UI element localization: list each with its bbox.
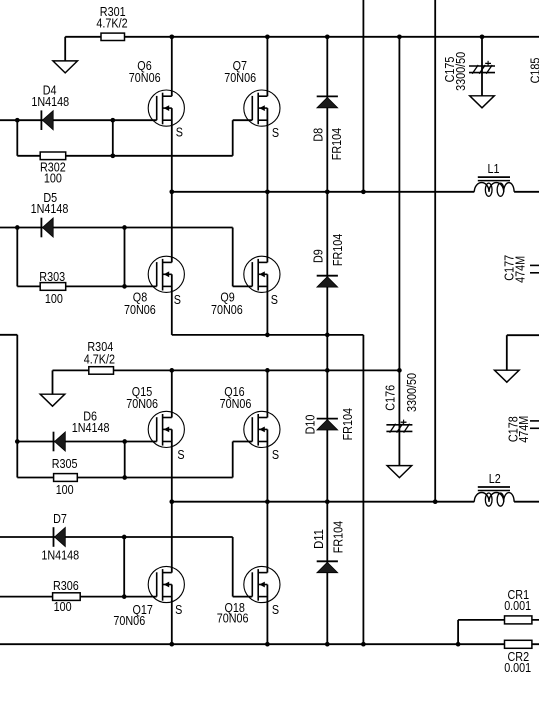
svg-text:1N4148: 1N4148	[31, 94, 69, 109]
svg-text:70N06: 70N06	[129, 70, 161, 85]
transistor Q18 70N06	[217, 566, 280, 625]
wire Q16 gate jog	[233, 442, 253, 478]
wire Q7 source to node A	[266, 108, 268, 192]
ground for R304 rail	[40, 394, 65, 406]
wire R306 to D7 riser	[123, 537, 125, 597]
resistor CR1	[504, 587, 532, 624]
diode D8 FR104	[310, 96, 344, 160]
capacitor C185 (cut off)	[528, 58, 539, 84]
resistor R306	[53, 578, 81, 614]
svg-text:100: 100	[45, 291, 63, 306]
svg-text:70N06: 70N06	[126, 396, 158, 411]
wire bottom rail	[0, 643, 539, 645]
wire Q18 source lead	[266, 585, 268, 645]
wire left bus drop row3	[16, 442, 18, 478]
wire bus vertical lower	[362, 335, 364, 644]
wire bus vertical upper	[362, 0, 364, 192]
ground for C176	[387, 466, 412, 478]
wire Q9 gate jog	[233, 228, 253, 287]
svg-text:0.001: 0.001	[504, 598, 531, 613]
junction dots row2 gate network	[15, 225, 127, 289]
pin S of Q9	[271, 292, 278, 307]
wire Q8 source lead	[171, 274, 173, 335]
wire R303 to D5 riser	[124, 228, 126, 287]
pin S of Q8	[174, 292, 181, 307]
diode D4 1N4148	[31, 83, 69, 130]
wire C177 ground stem	[507, 335, 539, 370]
resistor CR2	[504, 640, 532, 675]
svg-text:FR104: FR104	[330, 234, 345, 266]
wire +V top rail	[65, 36, 539, 38]
wire +V rail 2 (rail3)	[53, 369, 400, 371]
svg-text:S: S	[175, 602, 182, 617]
junction dots bottom rail	[169, 642, 460, 647]
svg-text:R305: R305	[52, 456, 78, 471]
wire R304 ground stem	[52, 370, 54, 394]
svg-text:D10: D10	[303, 415, 318, 435]
svg-text:S: S	[272, 602, 279, 617]
svg-text:1N4148: 1N4148	[41, 547, 79, 562]
wire Q7 gate jog	[233, 120, 253, 156]
junction dots row3 gate network	[15, 439, 127, 480]
diode D7 1N4148	[41, 511, 79, 562]
svg-text:C185: C185	[528, 58, 539, 84]
wire CR1 branch	[458, 620, 539, 644]
wire C175 drop	[481, 37, 483, 96]
junction dots rail3	[169, 368, 401, 373]
capacitor C178 474M	[506, 416, 539, 443]
ground right mid	[495, 370, 520, 382]
wire Q8 drain lead	[171, 192, 173, 263]
junction dots row4 gate network	[122, 535, 127, 599]
svg-text:4.7K/2: 4.7K/2	[84, 352, 115, 367]
wire R306 row	[0, 596, 157, 598]
wire R305 to D6 riser	[124, 442, 126, 478]
transistor Q16 70N06	[220, 384, 280, 447]
wire R305 row	[17, 477, 232, 479]
svg-text:3300/50: 3300/50	[404, 373, 419, 412]
junction dots row1 gate network	[15, 118, 115, 158]
svg-text:0.001: 0.001	[504, 660, 531, 675]
resistor R303	[39, 269, 65, 306]
pin S of Q7	[272, 125, 279, 140]
resistor R305	[52, 456, 78, 497]
svg-text:100: 100	[56, 482, 74, 497]
diode D11 FR104	[311, 521, 345, 573]
junction dots top rail	[169, 34, 484, 39]
ground for R301 rail	[53, 61, 78, 73]
diode D10 FR104	[303, 408, 355, 440]
wire C176 drop	[398, 37, 400, 466]
resistor R304	[84, 339, 115, 374]
diode D9 FR104	[311, 234, 346, 287]
pin S of Q18	[272, 602, 279, 617]
svg-text:FR104: FR104	[331, 521, 346, 553]
wire output node A rail	[172, 191, 539, 193]
svg-text:70N06: 70N06	[220, 396, 252, 411]
svg-text:C176: C176	[383, 385, 398, 411]
wire D5 gate row	[0, 227, 233, 229]
wire R302 to D4 riser	[112, 120, 114, 156]
svg-text:S: S	[272, 125, 279, 140]
svg-text:D11: D11	[311, 529, 326, 549]
wire Q6 drain lead	[171, 37, 173, 96]
svg-text:D7: D7	[53, 511, 67, 526]
transistor Q6 70N06	[129, 58, 185, 126]
wire Q17 drain lead	[171, 502, 173, 573]
svg-text:70N06: 70N06	[224, 70, 256, 85]
svg-text:L1: L1	[488, 161, 500, 176]
svg-text:D8: D8	[310, 128, 325, 142]
wire Q15 source to node B	[171, 429, 173, 501]
capacitor C175 3300/50	[442, 52, 495, 91]
transistor Q9 70N06	[211, 256, 280, 317]
svg-text:R306: R306	[53, 578, 79, 593]
transistor Q8 70N06	[124, 256, 184, 317]
pin S of Q17	[175, 602, 182, 617]
svg-text:FR104: FR104	[329, 128, 344, 160]
svg-text:100: 100	[44, 171, 62, 186]
svg-text:R303: R303	[39, 269, 65, 284]
pin S of Q15	[177, 447, 184, 462]
inductor L1	[474, 161, 514, 196]
wire Q9 source lead	[266, 274, 268, 335]
svg-text:3300/50: 3300/50	[453, 52, 468, 91]
wire freewheel diode chain	[326, 37, 328, 644]
diode D5 1N4148	[31, 190, 69, 237]
wire Q18 gate jog	[233, 537, 253, 597]
svg-text:100: 100	[54, 599, 72, 614]
transistor Q17 70N06	[113, 566, 184, 627]
svg-text:1N4148: 1N4148	[72, 420, 110, 435]
transistor Q15 70N06	[126, 384, 184, 447]
pin S of Q6	[176, 124, 183, 139]
wire Q16 drain lead	[266, 370, 268, 417]
transistor Q7 70N06	[224, 58, 280, 126]
svg-text:S: S	[272, 447, 279, 462]
svg-text:70N06: 70N06	[217, 610, 249, 625]
wire D7 gate row	[0, 536, 233, 538]
capacitor C176 3300/50	[383, 373, 419, 433]
wire Q6 source to node A	[171, 108, 173, 192]
svg-text:474M: 474M	[516, 416, 531, 443]
ground for C175	[470, 96, 495, 108]
junction dots row2 source rail	[265, 333, 330, 338]
inductor L2	[474, 471, 514, 506]
wire Q16 source to node B	[266, 429, 268, 501]
junction dots node B rail	[169, 499, 437, 504]
resistor R301	[96, 4, 127, 40]
svg-text:L2: L2	[489, 471, 501, 486]
svg-text:1N4148: 1N4148	[31, 201, 69, 216]
wire left bus drop row1	[16, 120, 18, 156]
wire R302 row	[17, 155, 232, 157]
wire Q7 drain lead	[266, 37, 268, 96]
wire Q18 drain lead	[266, 502, 268, 573]
wire left bus drop row2	[16, 228, 18, 287]
resistor R302	[40, 152, 66, 186]
wire low-side source rail row2	[172, 334, 364, 336]
svg-text:FR104: FR104	[340, 408, 355, 440]
svg-text:S: S	[271, 292, 278, 307]
wire Q9 drain lead	[266, 192, 268, 263]
wire Q15 drain lead	[171, 370, 173, 417]
wire top-rail ground stem	[64, 37, 66, 62]
svg-text:S: S	[177, 447, 184, 462]
svg-text:D9: D9	[311, 249, 326, 263]
wire R303 row	[17, 285, 156, 287]
wire output node B rail	[172, 501, 539, 503]
svg-text:70N06: 70N06	[124, 302, 156, 317]
svg-text:70N06: 70N06	[211, 302, 243, 317]
svg-text:70N06: 70N06	[113, 613, 145, 628]
junction dots node A rail	[169, 189, 365, 194]
wire left bus entry rows3-4	[0, 335, 17, 442]
svg-text:S: S	[176, 124, 183, 139]
wire D4 gate row	[0, 119, 157, 121]
capacitor C177 474M	[501, 255, 539, 283]
wire bus vertical 2	[434, 0, 436, 502]
svg-text:4.7K/2: 4.7K/2	[96, 15, 127, 30]
wire Q17 source lead	[171, 585, 173, 645]
svg-text:S: S	[174, 292, 181, 307]
pin S of Q16	[272, 447, 279, 462]
diode D6 1N4148	[54, 408, 110, 451]
svg-text:474M: 474M	[513, 256, 528, 283]
wire D6 gate row	[17, 441, 156, 443]
